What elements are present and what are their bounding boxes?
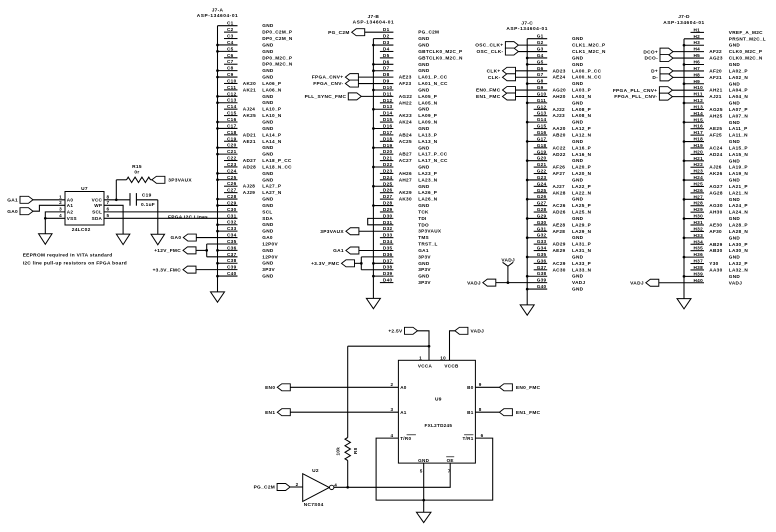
svg-text:LA32_P: LA32_P xyxy=(729,261,748,266)
svg-text:CLK1_M2C_N: CLK1_M2C_N xyxy=(572,49,606,54)
svg-text:AF22: AF22 xyxy=(709,49,722,54)
svg-text:GA1: GA1 xyxy=(7,197,18,203)
svg-text:G31: G31 xyxy=(537,226,547,231)
svg-text:H11: H11 xyxy=(694,92,703,97)
svg-text:C18: C18 xyxy=(227,130,237,135)
svg-text:AG28: AG28 xyxy=(709,190,723,195)
svg-text:D29: D29 xyxy=(383,207,393,212)
svg-text:C6: C6 xyxy=(227,53,234,58)
svg-text:C30: C30 xyxy=(227,207,237,212)
svg-text:GA1: GA1 xyxy=(333,248,344,254)
svg-text:LA01_P_CC: LA01_P_CC xyxy=(418,75,448,80)
svg-text:GND: GND xyxy=(729,178,741,183)
svg-text:H36: H36 xyxy=(694,252,704,257)
svg-text:H14: H14 xyxy=(694,111,704,116)
svg-text:CLK-: CLK- xyxy=(488,75,501,81)
svg-text:AK20: AK20 xyxy=(243,81,256,86)
svg-text:D4: D4 xyxy=(383,46,390,51)
svg-text:LA13_P: LA13_P xyxy=(418,132,437,137)
svg-text:AG20: AG20 xyxy=(553,88,567,93)
svg-text:AH25: AH25 xyxy=(709,113,722,118)
svg-text:LA12_N: LA12_N xyxy=(572,133,592,138)
svg-text:D+: D+ xyxy=(651,69,658,75)
svg-text:EEPROM required in VITA standa: EEPROM required in VITA standard xyxy=(23,253,113,259)
svg-text:C4: C4 xyxy=(227,40,234,45)
svg-text:LA20_P: LA20_P xyxy=(572,165,591,170)
svg-text:C24: C24 xyxy=(227,168,237,173)
svg-text:AJ22: AJ22 xyxy=(553,107,565,112)
svg-text:C40: C40 xyxy=(227,271,237,276)
svg-text:G2: G2 xyxy=(537,40,544,45)
svg-text:G34: G34 xyxy=(537,246,547,251)
svg-text:AK28: AK28 xyxy=(553,190,566,195)
svg-text:3P3V: 3P3V xyxy=(418,254,431,259)
svg-text:2: 2 xyxy=(296,482,299,487)
svg-text:D24: D24 xyxy=(383,175,393,180)
svg-text:GND: GND xyxy=(418,261,430,266)
svg-text:D31: D31 xyxy=(383,220,393,225)
svg-text:D6: D6 xyxy=(383,59,390,64)
svg-text:FPGA_CNV-: FPGA_CNV- xyxy=(313,81,343,87)
svg-text:4: 4 xyxy=(391,433,394,438)
svg-text:D21: D21 xyxy=(383,156,393,161)
svg-text:AJ24: AJ24 xyxy=(243,107,255,112)
svg-text:T/R0: T/R0 xyxy=(400,436,411,441)
svg-text:A0: A0 xyxy=(67,198,74,203)
svg-text:G1: G1 xyxy=(537,34,544,39)
svg-text:TDI: TDI xyxy=(418,216,426,221)
svg-text:H40: H40 xyxy=(694,278,704,283)
svg-text:LA14_N: LA14_N xyxy=(262,139,282,144)
svg-text:AJ27: AJ27 xyxy=(553,184,565,189)
svg-text:GND: GND xyxy=(572,55,584,60)
svg-text:3P3VAUX: 3P3VAUX xyxy=(320,229,344,235)
svg-text:G20: G20 xyxy=(537,156,547,161)
svg-text:LA24_P: LA24_P xyxy=(729,203,748,208)
svg-text:+2.5V: +2.5V xyxy=(388,328,403,334)
svg-text:G9: G9 xyxy=(537,85,544,90)
svg-text:AA20: AA20 xyxy=(553,126,566,131)
svg-text:TMS: TMS xyxy=(418,235,429,240)
svg-text:C17: C17 xyxy=(227,123,237,128)
svg-text:GND: GND xyxy=(262,261,274,266)
svg-text:VCCB: VCCB xyxy=(444,363,459,368)
svg-text:GND: GND xyxy=(572,177,584,182)
svg-text:GND: GND xyxy=(418,203,430,208)
svg-text:GND: GND xyxy=(572,287,584,292)
svg-text:D10: D10 xyxy=(383,85,393,90)
svg-text:D5: D5 xyxy=(383,53,390,58)
svg-text:J7-A: J7-A xyxy=(212,7,224,13)
svg-text:G14: G14 xyxy=(537,117,547,122)
svg-text:LA00_P_CC: LA00_P_CC xyxy=(572,68,602,73)
svg-text:PG_C2M: PG_C2M xyxy=(328,30,350,36)
svg-text:AF28: AF28 xyxy=(553,229,566,234)
svg-text:H4: H4 xyxy=(694,47,701,52)
svg-text:G39: G39 xyxy=(537,278,547,283)
svg-text:AD28: AD28 xyxy=(243,164,256,169)
svg-text:GND: GND xyxy=(729,120,741,125)
svg-text:GND: GND xyxy=(262,75,274,80)
svg-text:D20: D20 xyxy=(383,149,393,154)
svg-text:U9: U9 xyxy=(435,396,442,402)
svg-text:B0: B0 xyxy=(467,385,474,390)
svg-text:GND: GND xyxy=(262,94,274,99)
svg-text:D16: D16 xyxy=(383,124,393,129)
svg-text:+3.3V_FMC: +3.3V_FMC xyxy=(311,261,340,267)
svg-text:D34: D34 xyxy=(383,239,393,244)
svg-text:GND: GND xyxy=(572,120,584,125)
svg-text:AH21: AH21 xyxy=(709,88,722,93)
svg-text:LA27_P: LA27_P xyxy=(262,184,281,189)
svg-text:CLK1_M2C_P: CLK1_M2C_P xyxy=(572,43,605,48)
svg-text:SCL: SCL xyxy=(262,209,272,214)
svg-text:G18: G18 xyxy=(537,143,547,148)
svg-text:GND: GND xyxy=(729,43,741,48)
svg-text:C22: C22 xyxy=(227,156,237,161)
svg-text:LA09_P: LA09_P xyxy=(418,113,437,118)
svg-text:A1: A1 xyxy=(67,203,74,208)
svg-text:LA02_P: LA02_P xyxy=(729,68,748,73)
svg-text:AG25: AG25 xyxy=(709,107,723,112)
svg-text:Y30: Y30 xyxy=(709,261,718,266)
svg-text:FPGA I2C Lines: FPGA I2C Lines xyxy=(168,215,208,221)
svg-text:AG30: AG30 xyxy=(709,203,723,208)
svg-text:AE25: AE25 xyxy=(709,126,722,131)
svg-text:GA1: GA1 xyxy=(418,248,429,253)
svg-text:H15: H15 xyxy=(694,117,704,122)
svg-text:LA02_N: LA02_N xyxy=(729,75,749,80)
svg-text:3: 3 xyxy=(59,207,62,212)
svg-text:LA07_N: LA07_N xyxy=(729,113,749,118)
svg-text:H21: H21 xyxy=(694,156,704,161)
svg-text:GND: GND xyxy=(572,197,584,202)
svg-text:H24: H24 xyxy=(694,175,704,180)
svg-text:FXL2TD245: FXL2TD245 xyxy=(425,423,453,428)
svg-text:C29: C29 xyxy=(227,200,237,205)
svg-text:GND: GND xyxy=(262,42,274,47)
svg-text:LA03_P: LA03_P xyxy=(572,88,591,93)
svg-text:H23: H23 xyxy=(694,169,704,174)
svg-text:LA29_P: LA29_P xyxy=(572,222,591,227)
svg-text:GND: GND xyxy=(729,62,741,67)
svg-text:H38: H38 xyxy=(694,265,704,270)
svg-text:GND: GND xyxy=(418,107,430,112)
svg-text:G27: G27 xyxy=(537,201,547,206)
svg-text:C5: C5 xyxy=(227,46,234,51)
svg-text:GND: GND xyxy=(572,100,584,105)
svg-text:C14: C14 xyxy=(227,104,237,109)
svg-text:LA16_P: LA16_P xyxy=(572,145,591,150)
svg-text:GND: GND xyxy=(262,49,274,54)
svg-text:C31: C31 xyxy=(227,213,237,218)
svg-text:0.1uF: 0.1uF xyxy=(141,202,155,208)
svg-text:AG23: AG23 xyxy=(709,56,723,61)
svg-text:AE23: AE23 xyxy=(399,75,412,80)
svg-text:G4: G4 xyxy=(537,53,544,58)
svg-text:C21: C21 xyxy=(227,149,237,154)
svg-text:U2: U2 xyxy=(312,468,319,474)
svg-text:LA13_N: LA13_N xyxy=(418,139,438,144)
svg-text:4: 4 xyxy=(59,213,62,218)
svg-text:7: 7 xyxy=(107,200,110,205)
svg-text:SDA: SDA xyxy=(262,216,273,221)
svg-text:VADJ: VADJ xyxy=(471,328,485,334)
svg-text:LA26_N: LA26_N xyxy=(418,197,438,202)
svg-text:D37: D37 xyxy=(383,258,393,263)
svg-text:AF30: AF30 xyxy=(709,229,722,234)
svg-text:GND: GND xyxy=(729,216,741,221)
svg-text:LA31_N: LA31_N xyxy=(572,248,592,253)
svg-text:3P3V: 3P3V xyxy=(418,267,431,272)
svg-text:GND: GND xyxy=(418,43,430,48)
svg-text:LA09_N: LA09_N xyxy=(418,120,438,125)
svg-text:H7: H7 xyxy=(694,66,701,71)
svg-text:C39: C39 xyxy=(227,265,237,270)
svg-text:AE30: AE30 xyxy=(709,223,722,228)
svg-text:AD23: AD23 xyxy=(553,68,566,73)
svg-text:GND: GND xyxy=(572,36,584,41)
svg-text:VREF_A_M2C: VREF_A_M2C xyxy=(729,30,763,35)
svg-text:LA19_P: LA19_P xyxy=(729,165,748,170)
svg-text:LA28_P: LA28_P xyxy=(729,223,748,228)
svg-text:J7-C: J7-C xyxy=(521,20,533,26)
svg-text:LA31_P: LA31_P xyxy=(572,242,591,247)
svg-text:+3.3V_FMC: +3.3V_FMC xyxy=(153,267,182,273)
svg-text:D35: D35 xyxy=(383,245,393,250)
svg-text:C20: C20 xyxy=(227,143,237,148)
svg-text:H28: H28 xyxy=(694,201,704,206)
svg-text:D13: D13 xyxy=(383,104,393,109)
svg-text:DCO+: DCO+ xyxy=(643,49,658,55)
svg-text:LA14_P: LA14_P xyxy=(262,132,281,137)
svg-text:0r: 0r xyxy=(134,170,139,176)
svg-text:AK24: AK24 xyxy=(399,120,412,125)
svg-text:GND: GND xyxy=(418,87,430,92)
svg-text:GND: GND xyxy=(418,458,429,463)
svg-text:G26: G26 xyxy=(537,194,547,199)
svg-text:U7: U7 xyxy=(81,186,88,192)
svg-text:DP0_M2C_N: DP0_M2C_N xyxy=(262,62,293,67)
svg-text:LA06_P: LA06_P xyxy=(262,81,281,86)
svg-text:LA16_N: LA16_N xyxy=(572,152,592,157)
svg-text:LA28_N: LA28_N xyxy=(729,229,749,234)
svg-text:D26: D26 xyxy=(383,188,393,193)
svg-text:GND: GND xyxy=(418,126,430,131)
svg-text:C23: C23 xyxy=(227,162,237,167)
svg-text:C8: C8 xyxy=(227,66,234,71)
svg-text:C1: C1 xyxy=(227,21,234,26)
svg-text:D14: D14 xyxy=(383,111,393,116)
svg-text:3: 3 xyxy=(391,407,394,412)
svg-text:AB24: AB24 xyxy=(399,132,412,137)
svg-text:R15: R15 xyxy=(132,164,142,170)
svg-text:H39: H39 xyxy=(694,271,704,276)
svg-text:D7: D7 xyxy=(383,66,390,71)
svg-text:GND: GND xyxy=(572,158,584,163)
svg-text:DCO-: DCO- xyxy=(645,56,659,62)
svg-text:D18: D18 xyxy=(383,136,393,141)
svg-text:LA04_N: LA04_N xyxy=(729,94,749,99)
svg-text:C26: C26 xyxy=(227,181,237,186)
svg-text:H17: H17 xyxy=(694,130,704,135)
svg-text:OSC_CLK+: OSC_CLK+ xyxy=(475,43,503,49)
svg-text:GBTCLK0_M2C_N: GBTCLK0_M2C_N xyxy=(418,55,463,60)
svg-text:H6: H6 xyxy=(694,60,701,65)
svg-text:SDA: SDA xyxy=(92,216,103,221)
svg-text:C15: C15 xyxy=(227,111,237,116)
svg-text:AE29: AE29 xyxy=(553,248,566,253)
svg-text:TRST_L: TRST_L xyxy=(418,242,438,247)
svg-text:H25: H25 xyxy=(694,181,704,186)
svg-text:D19: D19 xyxy=(383,143,393,148)
svg-text:GND: GND xyxy=(262,68,274,73)
svg-text:C32: C32 xyxy=(227,220,237,225)
svg-text:LA03_N: LA03_N xyxy=(572,94,592,99)
svg-text:H31: H31 xyxy=(694,220,704,225)
svg-text:LA18_N_CC: LA18_N_CC xyxy=(262,164,292,169)
svg-text:GND: GND xyxy=(572,274,584,279)
svg-text:AF26: AF26 xyxy=(553,165,566,170)
svg-text:GND: GND xyxy=(729,255,741,260)
svg-text:AH27: AH27 xyxy=(399,177,412,182)
svg-text:LA19_N: LA19_N xyxy=(729,171,749,176)
svg-text:G12: G12 xyxy=(537,104,547,109)
svg-text:C33: C33 xyxy=(227,226,237,231)
svg-text:EN1: EN1 xyxy=(265,410,275,416)
svg-text:H16: H16 xyxy=(694,124,704,129)
svg-text:EN0_FMC: EN0_FMC xyxy=(516,385,541,391)
svg-text:GA0: GA0 xyxy=(171,235,182,241)
svg-text:ASP-134604-01: ASP-134604-01 xyxy=(197,13,239,19)
svg-text:GND: GND xyxy=(262,222,274,227)
svg-text:GND: GND xyxy=(262,274,274,279)
svg-text:H27: H27 xyxy=(694,194,704,199)
svg-text:AH30: AH30 xyxy=(709,210,722,215)
svg-text:PG_C2M: PG_C2M xyxy=(254,485,276,491)
svg-text:6: 6 xyxy=(481,433,484,438)
svg-text:3P3V: 3P3V xyxy=(262,267,275,272)
svg-text:VADJ: VADJ xyxy=(729,280,742,285)
svg-text:AG22: AG22 xyxy=(399,94,413,99)
svg-text:H18: H18 xyxy=(694,137,704,142)
svg-text:H37: H37 xyxy=(694,259,704,264)
svg-text:H19: H19 xyxy=(694,143,704,148)
svg-text:G22: G22 xyxy=(537,169,547,174)
svg-text:VADJ: VADJ xyxy=(501,258,515,264)
svg-text:D33: D33 xyxy=(383,233,393,238)
svg-text:G19: G19 xyxy=(537,149,547,154)
svg-text:GND: GND xyxy=(262,126,274,131)
svg-text:VSS: VSS xyxy=(67,216,77,221)
svg-text:AF25: AF25 xyxy=(709,133,722,138)
svg-text:C12: C12 xyxy=(227,91,237,96)
svg-text:VADJ: VADJ xyxy=(572,280,585,285)
svg-text:D17: D17 xyxy=(383,130,393,135)
svg-text:AJ29: AJ29 xyxy=(243,190,255,195)
svg-text:AF21: AF21 xyxy=(709,75,722,80)
svg-text:+12V_FMC: +12V_FMC xyxy=(154,248,181,254)
svg-text:H35: H35 xyxy=(694,246,704,251)
svg-text:GND: GND xyxy=(729,158,741,163)
svg-text:LA01_N_CC: LA01_N_CC xyxy=(418,81,448,86)
svg-text:AK23: AK23 xyxy=(399,113,412,118)
svg-text:12P0V: 12P0V xyxy=(262,254,278,259)
svg-text:LA08_P: LA08_P xyxy=(572,107,591,112)
svg-text:AE28: AE28 xyxy=(553,222,566,227)
svg-text:AF27: AF27 xyxy=(553,171,566,176)
svg-text:GBTCLK0_M2C_P: GBTCLK0_M2C_P xyxy=(418,49,462,54)
svg-text:GND: GND xyxy=(418,274,430,279)
svg-text:LA00_N_CC: LA00_N_CC xyxy=(572,75,602,80)
svg-text:D-: D- xyxy=(652,75,658,81)
svg-text:LA22_N: LA22_N xyxy=(572,190,592,195)
svg-text:WP: WP xyxy=(94,203,102,208)
svg-text:OSC_CLK-: OSC_CLK- xyxy=(476,49,503,55)
svg-text:8: 8 xyxy=(479,407,482,412)
svg-text:3P3V: 3P3V xyxy=(418,280,431,285)
svg-text:AK25: AK25 xyxy=(243,113,256,118)
svg-text:C19: C19 xyxy=(142,192,152,198)
svg-text:C16: C16 xyxy=(227,117,237,122)
svg-text:G17: G17 xyxy=(537,136,547,141)
svg-text:G35: G35 xyxy=(537,252,547,257)
svg-text:12P0V: 12P0V xyxy=(262,241,278,246)
svg-text:H26: H26 xyxy=(694,188,704,193)
svg-text:AJ21: AJ21 xyxy=(709,94,721,99)
svg-text:D32: D32 xyxy=(383,226,393,231)
svg-text:TCK: TCK xyxy=(418,209,429,214)
svg-text:D8: D8 xyxy=(383,72,390,77)
svg-text:LA05_N: LA05_N xyxy=(418,100,438,105)
svg-text:GND: GND xyxy=(729,101,741,106)
svg-text:AF20: AF20 xyxy=(709,68,722,73)
svg-text:GND: GND xyxy=(418,62,430,67)
svg-text:AH22: AH22 xyxy=(399,100,412,105)
svg-text:GND: GND xyxy=(572,216,584,221)
svg-text:G29: G29 xyxy=(537,213,547,218)
svg-text:10: 10 xyxy=(440,355,446,360)
svg-text:A0: A0 xyxy=(400,385,407,390)
svg-text:C2: C2 xyxy=(227,27,234,32)
svg-text:GND: GND xyxy=(262,248,274,253)
svg-text:6: 6 xyxy=(107,207,110,212)
svg-text:G16: G16 xyxy=(537,130,547,135)
svg-text:VADJ: VADJ xyxy=(467,280,481,286)
svg-text:LA30_P: LA30_P xyxy=(729,242,748,247)
svg-text:GA0: GA0 xyxy=(262,235,273,240)
svg-text:H20: H20 xyxy=(694,149,704,154)
svg-text:G6: G6 xyxy=(537,66,544,71)
svg-text:FPGA_PLL_CNV-: FPGA_PLL_CNV- xyxy=(614,94,657,100)
svg-text:G28: G28 xyxy=(537,207,547,212)
svg-text:AB20: AB20 xyxy=(553,133,566,138)
svg-text:G15: G15 xyxy=(537,124,547,129)
svg-text:LA23_N: LA23_N xyxy=(418,177,438,182)
svg-text:ASP-134604-01: ASP-134604-01 xyxy=(353,20,395,26)
svg-text:LA33_P: LA33_P xyxy=(572,261,591,266)
svg-text:FPGA_PLL_CNV+: FPGA_PLL_CNV+ xyxy=(613,88,658,94)
svg-text:LA23_P: LA23_P xyxy=(418,171,437,176)
svg-text:EN1_FMC: EN1_FMC xyxy=(476,94,501,100)
svg-text:GND: GND xyxy=(418,36,430,41)
svg-text:PLL_SYNC_FMC: PLL_SYNC_FMC xyxy=(305,94,347,100)
svg-text:LA21_P: LA21_P xyxy=(729,184,748,189)
svg-text:LA10_N: LA10_N xyxy=(262,113,282,118)
svg-text:AC25: AC25 xyxy=(399,139,412,144)
svg-text:LA04_P: LA04_P xyxy=(729,88,748,93)
svg-text:G21: G21 xyxy=(537,162,547,167)
